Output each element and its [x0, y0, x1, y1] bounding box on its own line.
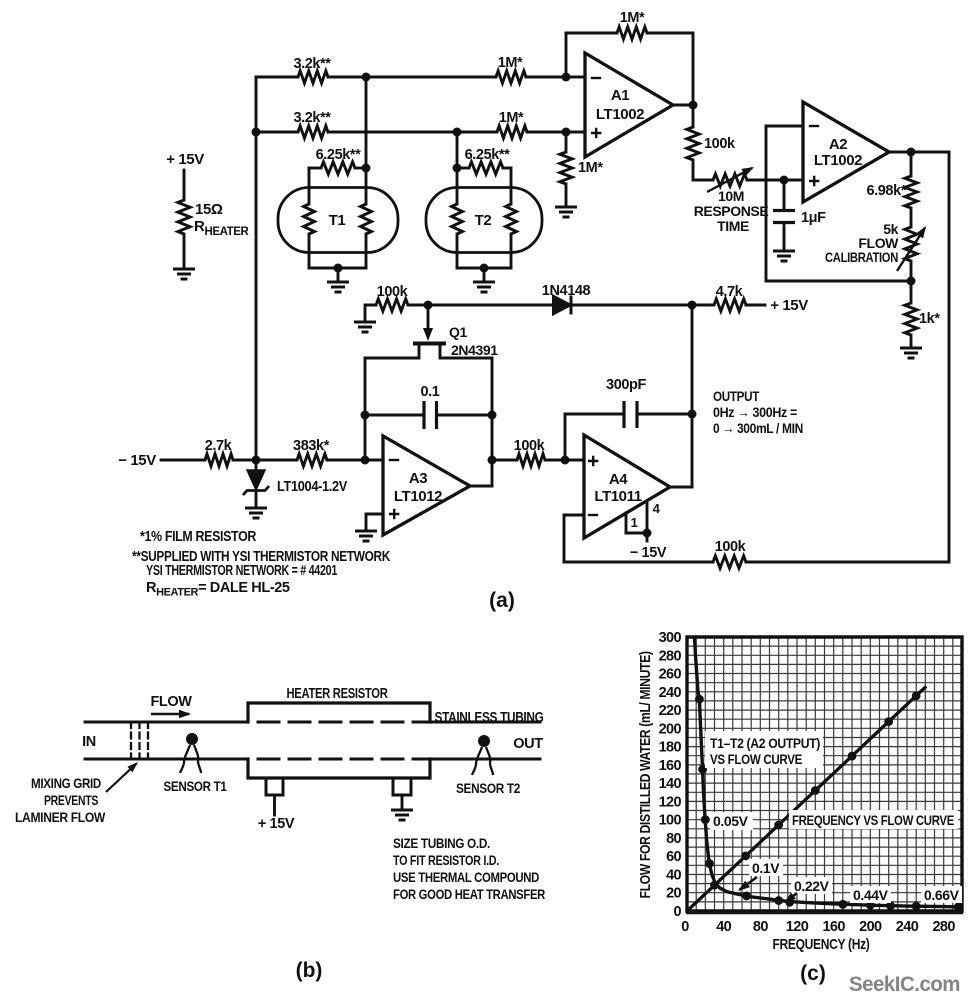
- svg-text:100k: 100k: [377, 284, 409, 300]
- svg-text:OUT: OUT: [513, 736, 543, 752]
- svg-text:20: 20: [666, 886, 681, 902]
- wire A4 output: [670, 486, 692, 489]
- label 0.1V with arrow: [749, 859, 783, 876]
- node A3 minus input junction: [361, 456, 370, 465]
- wire bus node to 383k: [256, 459, 297, 462]
- curve frequency vs flow straight line: [687, 686, 926, 911]
- capacitor 0.1 (A3 integrator): [365, 414, 424, 417]
- svg-text:220: 220: [659, 703, 682, 719]
- wire T1 to ground: [337, 268, 340, 281]
- svg-text:LT1002: LT1002: [814, 152, 862, 169]
- label FREQUENCY VS FLOW CURVE: [789, 810, 958, 829]
- ground under 1M*: [555, 207, 577, 217]
- svg-text:LT1002: LT1002: [596, 106, 644, 123]
- svg-text:3.2k**: 3.2k**: [293, 110, 331, 126]
- transistor Q1 2N4391 gate bar: [413, 342, 446, 346]
- svg-text:1M*: 1M*: [578, 160, 603, 176]
- resistor 383k*: [297, 454, 327, 466]
- potentiometer 5k FLOW CALIBRATION: [905, 227, 917, 261]
- svg-text:*1% FILM RESISTOR: *1% FILM RESISTOR: [140, 529, 257, 545]
- resistor 3.2k** (row1): [298, 71, 328, 83]
- wire left bus vertical: [255, 77, 258, 460]
- power -15V label (A4 supply): [646, 533, 649, 541]
- thermistor T1 left element: [308, 168, 311, 204]
- wire gate node to diode: [428, 304, 553, 307]
- svg-text:4: 4: [653, 501, 661, 516]
- svg-text:SENSOR T1: SENSOR T1: [164, 778, 227, 794]
- svg-text:FREQUENCY (Hz): FREQUENCY (Hz): [773, 936, 870, 953]
- node A1 plus input junction: [562, 128, 571, 137]
- svg-text:6.98k*: 6.98k*: [866, 183, 906, 199]
- svg-text:A4: A4: [609, 471, 628, 488]
- svg-text:FOR GOOD HEAT TRANSFER: FOR GOOD HEAT TRANSFER: [393, 886, 545, 902]
- resistor 1M* (A1 feedback): [617, 27, 647, 39]
- svg-text:SIZE TUBING O.D.: SIZE TUBING O.D.: [393, 835, 490, 851]
- svg-text:A1: A1: [611, 87, 629, 104]
- svg-text:T1–T2 (A2 OUTPUT): T1–T2 (A2 OUTPUT): [710, 735, 820, 751]
- svg-text:Q1: Q1: [449, 324, 467, 340]
- curve T1-T2 A2 output hyperbola: [695, 637, 963, 907]
- wire 4.7k to +15V: [746, 304, 765, 307]
- wire A2 output: [889, 151, 949, 154]
- svg-text:260: 260: [659, 667, 682, 683]
- thermistor T2 right element: [510, 168, 513, 204]
- svg-text:PREVENTS: PREVENTS: [44, 792, 98, 808]
- svg-text:A2: A2: [829, 136, 847, 153]
- capacitor 300pF: [565, 413, 624, 416]
- node T1 top junction: [362, 164, 371, 173]
- wire right bus vertical: [948, 152, 951, 562]
- svg-text:+ 15V: + 15V: [258, 816, 295, 832]
- svg-text:0.05V: 0.05V: [713, 813, 749, 829]
- ground under heater terminal: [391, 810, 413, 820]
- wire 100k to response pot: [693, 179, 713, 182]
- svg-text:4.7k: 4.7k: [716, 284, 744, 300]
- data points on T1-T2 curve: [695, 695, 704, 704]
- node row2/T2 junction: [453, 128, 462, 137]
- svg-text:240: 240: [896, 919, 919, 935]
- svg-text:STAINLESS TUBING: STAINLESS TUBING: [435, 710, 544, 726]
- svg-text:2N4391: 2N4391: [451, 342, 498, 358]
- svg-text:120: 120: [786, 919, 809, 935]
- diode 1N4148: [553, 296, 571, 315]
- label 0.66V: [921, 886, 962, 903]
- node T2 top junction: [453, 164, 462, 173]
- wire row2 mid segment: [328, 131, 497, 134]
- svg-text:LT1004-1.2V: LT1004-1.2V: [277, 479, 348, 495]
- tube bottom line: [85, 758, 248, 761]
- node 0.1 cap right junction: [488, 411, 497, 420]
- node left bus / row2 junction: [252, 128, 261, 137]
- wire 300pF left branch: [564, 414, 567, 460]
- ground under 1uF: [773, 251, 795, 261]
- svg-text:240: 240: [659, 685, 682, 701]
- node T2 bottom junction: [480, 264, 489, 273]
- svg-text:80: 80: [753, 919, 768, 935]
- thermistor T2 left element: [456, 168, 459, 204]
- wire T1 branch from row1: [365, 77, 368, 168]
- svg-text:RESPONSE: RESPONSE: [694, 203, 769, 219]
- wire Q1 drain down right side: [491, 358, 494, 486]
- svg-text:0.66V: 0.66V: [924, 887, 960, 903]
- wire 1uF to ground: [783, 224, 786, 249]
- svg-text:LT1012: LT1012: [394, 488, 442, 505]
- node A1 minus input junction: [562, 73, 571, 82]
- svg-text:+ 15V: + 15V: [770, 297, 808, 314]
- graph grid: [687, 637, 962, 911]
- wire A4 pins join: [626, 532, 647, 535]
- svg-text:(a): (a): [489, 589, 515, 612]
- svg-text:3.2k**: 3.2k**: [293, 56, 331, 72]
- svg-text:100k: 100k: [514, 438, 546, 454]
- wire +15V to R_HEATER: [183, 170, 186, 200]
- svg-text:1M*: 1M*: [499, 110, 524, 126]
- svg-text:280: 280: [932, 919, 955, 935]
- svg-text:+ 15V: + 15V: [166, 151, 204, 168]
- resistor 100k (A1 output divider): [692, 105, 695, 127]
- node A1 output junction: [689, 101, 698, 110]
- svg-text:− 15V: − 15V: [630, 545, 667, 561]
- pin 1 of A4: [625, 513, 628, 533]
- wire A1 feedback top right segment: [647, 33, 693, 105]
- wire gate resistor to node: [408, 304, 428, 307]
- wire 6.98k to 5k pot: [910, 208, 913, 227]
- wire 2.7k to bus node: [233, 459, 256, 462]
- svg-text:USE THERMAL COMPOUND: USE THERMAL COMPOUND: [393, 869, 539, 885]
- resistor 6.98k*: [910, 152, 913, 176]
- ground under T2: [473, 282, 495, 292]
- wire row2 to A1 plus input: [527, 131, 585, 134]
- wire -15V to 2.7k: [161, 459, 205, 462]
- svg-text:300pF: 300pF: [606, 377, 646, 393]
- mixing grid dashed lines: [130, 722, 132, 759]
- node A2 output junction: [907, 148, 916, 157]
- svg-text:1k*: 1k*: [919, 311, 940, 327]
- svg-text:383k*: 383k*: [293, 438, 330, 454]
- svg-text:280: 280: [659, 648, 682, 664]
- svg-text:0Hz → 300Hz =: 0Hz → 300Hz =: [713, 404, 797, 420]
- resistor 6.25k** (across T1): [309, 167, 321, 170]
- svg-text:CALIBRATION: CALIBRATION: [825, 249, 898, 265]
- svg-text:0: 0: [674, 904, 682, 920]
- svg-text:VS FLOW CURVE: VS FLOW CURVE: [710, 751, 802, 767]
- svg-text:0: 0: [681, 919, 689, 935]
- svg-text:100k: 100k: [704, 136, 736, 152]
- svg-text:OUTPUT: OUTPUT: [713, 388, 760, 404]
- wire LT1004 to ground: [255, 491, 258, 506]
- svg-text:40: 40: [716, 919, 731, 935]
- wire R_HEATER to ground: [183, 234, 186, 268]
- ground under T1: [327, 282, 349, 292]
- svg-text:0.1: 0.1: [421, 384, 440, 400]
- wire Q1 source down left side: [364, 358, 367, 460]
- resistor 100k (hysteresis feedback): [713, 556, 746, 568]
- label 0.22V with arrow: [791, 877, 832, 894]
- svg-text:100: 100: [659, 813, 682, 829]
- resistor 1M* (row1, to A1 inverting input): [496, 71, 526, 83]
- wire A1 output: [673, 104, 693, 107]
- wire 383k to A3 minus input: [327, 459, 383, 462]
- svg-text:0.1V: 0.1V: [752, 860, 780, 876]
- wire row1 left segment: [256, 76, 298, 79]
- svg-text:1μF: 1μF: [801, 210, 826, 226]
- svg-text:180: 180: [659, 740, 682, 756]
- svg-text:1: 1: [631, 515, 638, 530]
- svg-text:T1: T1: [329, 212, 346, 229]
- node 300pF / output bus junction: [688, 410, 697, 419]
- tube top line: [85, 721, 248, 724]
- heater resistor box: [248, 703, 430, 722]
- resistor 2.7k: [205, 454, 233, 466]
- svg-text:FLOW: FLOW: [150, 694, 192, 710]
- flow direction arrow: [151, 713, 189, 716]
- svg-text:140: 140: [659, 776, 682, 792]
- node A4 pin junction: [643, 529, 652, 538]
- label 0.44V: [850, 886, 891, 903]
- op-amp A2 LT1002: [803, 102, 889, 202]
- wire A2 feedback box (minus input to bottom rail): [766, 126, 911, 281]
- op-amp A1 LT1002: [585, 53, 673, 157]
- svg-text:LAMINER FLOW: LAMINER FLOW: [15, 809, 106, 825]
- pin 4 of A4: [646, 501, 649, 533]
- resistor 100k (Q1 gate pull): [365, 305, 376, 320]
- svg-text:1N4148: 1N4148: [542, 283, 591, 299]
- svg-text:0.22V: 0.22V: [794, 878, 830, 894]
- wire T1 bottom bar: [309, 267, 366, 270]
- svg-text:TO FIT RESISTOR I.D.: TO FIT RESISTOR I.D.: [393, 852, 499, 868]
- node A2 feedback bottom junction: [907, 277, 916, 286]
- svg-text:2.7k: 2.7k: [205, 438, 233, 454]
- wire A3 plus input to ground: [366, 514, 383, 529]
- ground under 1k: [900, 348, 922, 358]
- svg-text:60: 60: [666, 849, 681, 865]
- svg-text:FREQUENCY VS FLOW CURVE: FREQUENCY VS FLOW CURVE: [792, 812, 954, 828]
- wire bottom feedback left segment: [564, 561, 713, 564]
- svg-text:(b): (b): [296, 959, 323, 982]
- wire bottom feedback right segment: [746, 561, 949, 564]
- wire A3 output: [470, 485, 492, 488]
- ground under LT1004: [245, 508, 267, 518]
- label 0.05V: [710, 812, 753, 830]
- svg-text:300: 300: [659, 630, 682, 646]
- node A4 plus input junction: [561, 456, 570, 465]
- label T1-T2 (A2 OUTPUT) VS FLOW CURVE: [705, 731, 823, 768]
- svg-text:SENSOR T2: SENSOR T2: [456, 780, 521, 796]
- svg-text:200: 200: [859, 919, 882, 935]
- wire A1 feedback top left segment: [566, 32, 617, 35]
- resistor R_HEATER 15 ohm: [178, 200, 190, 234]
- svg-text:80: 80: [666, 831, 681, 847]
- svg-text:100k: 100k: [715, 539, 747, 555]
- wire row2 left segment: [256, 131, 298, 134]
- wire output bus vertical: [691, 305, 694, 487]
- node A2 plus input / 1uF junction: [780, 176, 789, 185]
- transistor Q1 drain lead: [440, 345, 492, 358]
- svg-text:YSI THERMISTOR NETWORK = # 442: YSI THERMISTOR NETWORK = # 44201: [146, 563, 337, 579]
- svg-text:6.25k**: 6.25k**: [465, 147, 511, 163]
- svg-text:T2: T2: [475, 212, 492, 229]
- node T1 bottom junction: [334, 264, 343, 273]
- resistor 100k (A3 to A4): [492, 459, 517, 462]
- svg-text:− 15V: − 15V: [118, 452, 156, 469]
- thermistor T1 oval: [278, 188, 398, 253]
- diode LT1004-1.2V reference: [255, 460, 258, 470]
- wire pot to A2 plus input: [747, 179, 803, 182]
- svg-text:0.44V: 0.44V: [853, 887, 889, 903]
- wire 1k to ground: [910, 335, 913, 347]
- resistor 6.25k** (across T2): [457, 167, 469, 170]
- wire A1 feedback left vertical: [565, 33, 568, 77]
- svg-text:200: 200: [659, 721, 682, 737]
- op-amp A4 LT1011 comparator: [584, 435, 670, 538]
- wire diode to +15V node: [571, 304, 692, 307]
- node A3 output / 100k junction: [488, 456, 497, 465]
- svg-text:TIME: TIME: [717, 218, 749, 234]
- resistor 4.7k: [692, 304, 714, 307]
- svg-text:IN: IN: [82, 734, 96, 750]
- svg-text:160: 160: [822, 919, 845, 935]
- svg-text:MIXING GRID: MIXING GRID: [31, 775, 101, 791]
- op-amp A3 LT1012: [383, 436, 470, 535]
- svg-text:SeekIC.com: SeekIC.com: [849, 972, 960, 996]
- svg-text:A3: A3: [409, 470, 427, 487]
- svg-text:0 → 300mL / MIN: 0 → 300mL / MIN: [713, 420, 803, 436]
- svg-text:120: 120: [659, 794, 682, 810]
- svg-text:40: 40: [666, 867, 681, 883]
- wire T2 bottom bar: [457, 267, 511, 270]
- thermistor T1 right element: [365, 168, 368, 204]
- wire T2 branch from row2: [456, 132, 459, 168]
- resistor 1M* (A1 plus input to ground): [565, 132, 568, 152]
- node row1/T1 junction: [362, 73, 371, 82]
- wire Q1 gate with arrow: [427, 305, 430, 331]
- resistor 1k*: [910, 281, 913, 303]
- mixing grid pointer arrow: [106, 763, 137, 792]
- svg-text:15Ω: 15Ω: [195, 201, 223, 218]
- resistor 1M* (row2, to A1 non-inverting input): [497, 126, 527, 138]
- heater ground terminal: [393, 778, 411, 795]
- thermistor T2 oval: [426, 188, 542, 253]
- ground under R_HEATER: [173, 269, 195, 279]
- ground at 100k gate resistor: [354, 322, 376, 332]
- svg-text:LT1011: LT1011: [594, 488, 641, 505]
- wire row1 mid segment: [328, 76, 496, 79]
- graph border frame: [687, 637, 962, 911]
- svg-text:1M*: 1M*: [498, 55, 523, 71]
- wire 100k to A4 plus input: [545, 459, 584, 462]
- wire A4 minus input feedback: [564, 515, 584, 562]
- node output bus / +15V row junction: [688, 301, 697, 310]
- heater +15V terminal: [266, 778, 283, 795]
- transistor Q1 source lead: [365, 345, 419, 358]
- svg-text:FLOW FOR DISTILLED WATER (mL/: FLOW FOR DISTILLED WATER (mL/ MINUTE): [638, 651, 654, 899]
- node Q1 gate row junction: [424, 301, 433, 310]
- data points on frequency vs flow line: [710, 881, 719, 890]
- wire row1 to A1 minus input: [526, 76, 585, 79]
- svg-text:(c): (c): [800, 962, 826, 985]
- svg-text:6.25k**: 6.25k**: [316, 147, 362, 163]
- resistor 3.2k** (row2): [298, 126, 328, 138]
- svg-text:160: 160: [659, 758, 682, 774]
- sensor T1 probe: [186, 733, 198, 745]
- node left bus bottom junction: [252, 456, 261, 465]
- sensor T2 probe: [478, 735, 490, 747]
- node 0.1 cap left junction: [361, 411, 370, 420]
- potentiometer 10M RESPONSE TIME: [713, 174, 747, 186]
- wire T2 to ground: [483, 268, 486, 281]
- svg-text:HEATER RESISTOR: HEATER RESISTOR: [287, 686, 389, 702]
- capacitor 1uF: [783, 180, 786, 209]
- ground at A3 plus input: [355, 531, 377, 541]
- svg-text:10M: 10M: [718, 188, 744, 204]
- svg-text:1M*: 1M*: [620, 10, 645, 26]
